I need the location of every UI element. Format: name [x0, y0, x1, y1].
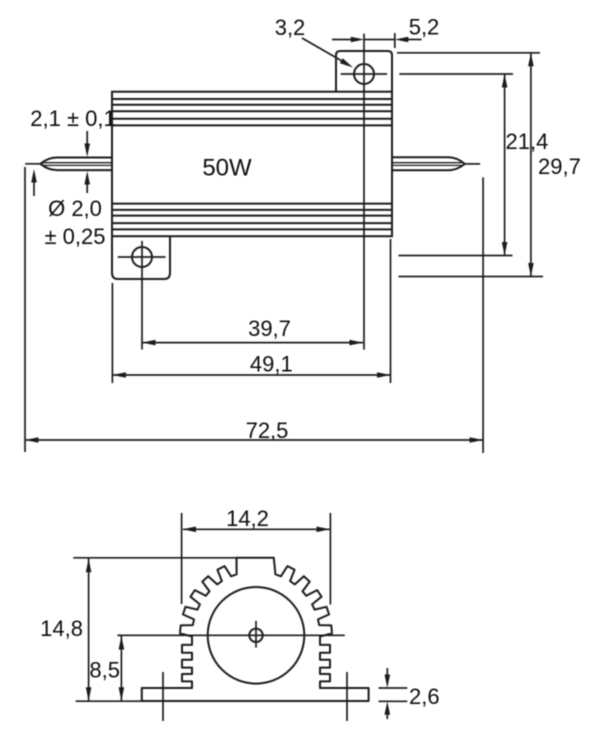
50W label: [202, 155, 252, 182]
label 39,7: [248, 316, 291, 341]
bottom mounting tab: [112, 236, 170, 279]
dimension 14,8: [86, 559, 92, 701]
dimension 5,2: [332, 33, 422, 48]
dimension 8,5: [119, 636, 125, 701]
left lead: [25, 158, 112, 171]
svg-text:49,1: 49,1: [250, 352, 293, 377]
dimension 72,5 extension lines: [25, 167, 483, 453]
label 49,1: [250, 352, 293, 377]
label Ø 2,0: [48, 196, 102, 221]
svg-text:50W: 50W: [202, 155, 252, 182]
svg-text:2,6: 2,6: [409, 684, 440, 709]
svg-text:3,2: 3,2: [275, 15, 306, 40]
top tab hole centerlines: [341, 34, 387, 350]
label 29,7: [538, 154, 581, 179]
label ± 0,25: [44, 224, 105, 249]
arrow down to lead top: [84, 131, 90, 157]
right lead: [392, 157, 480, 170]
label 72,5: [246, 418, 289, 443]
top heatsink fin lines: [112, 99, 392, 125]
dimension 8,5 extension line: [118, 634, 122, 636]
top tab hole: [354, 64, 374, 84]
label 21,4: [506, 129, 549, 154]
heatsink housing cross-section outline with fins and flange (front view): [142, 558, 369, 701]
arrow up to lead bottom: [84, 171, 90, 193]
bottom tab hole centerlines: [118, 241, 166, 350]
svg-text:39,7: 39,7: [248, 316, 291, 341]
right extension lines: [397, 53, 543, 277]
resistor body outline (side view): [112, 92, 392, 237]
svg-text:5,2: 5,2: [409, 15, 440, 40]
top mounting tab: [336, 51, 392, 92]
dimension 29,7: [528, 53, 534, 277]
bottom heatsink fin lines: [112, 204, 392, 230]
dimension 14,2: [183, 527, 331, 533]
svg-text:14,8: 14,8: [40, 616, 83, 641]
svg-text:29,7: 29,7: [538, 154, 581, 179]
svg-text:2,1 ± 0,1: 2,1 ± 0,1: [30, 106, 115, 131]
dimension 39,7: [142, 340, 363, 346]
dimension 2,6: [385, 668, 391, 719]
center hole vertical centerline: [255, 621, 257, 648]
dimension 14,8 extension lines: [73, 558, 236, 701]
dimension 49,1: [112, 372, 390, 378]
label 5,2: [409, 15, 440, 40]
svg-text:8,5: 8,5: [89, 658, 120, 683]
inner bore circle: [208, 587, 305, 684]
arrow up to lead tip: [31, 169, 37, 196]
dimension 21,4: [502, 74, 508, 256]
label 3,2: [275, 15, 306, 40]
leader arrow 3,2 to hole: [302, 38, 353, 68]
label 2,6: [409, 684, 440, 709]
dimension 14,2 extension lines: [182, 513, 331, 605]
svg-text:21,4: 21,4: [506, 129, 549, 154]
label 2,1 ± 0,1: [30, 106, 115, 131]
horizontal centerline front view: [118, 634, 345, 636]
mounting hole centerlines front view: [163, 672, 347, 721]
center hole: [249, 629, 262, 642]
svg-text:14,2: 14,2: [226, 506, 269, 531]
dimension 2,6 extension lines: [379, 688, 408, 701]
bottom tab hole: [132, 247, 152, 267]
dimension 49,1 extension lines: [112, 239, 390, 383]
svg-text:72,5: 72,5: [246, 418, 289, 443]
dimension 72,5: [25, 437, 483, 443]
label 14,8: [40, 616, 83, 641]
label 8,5: [89, 658, 120, 683]
label 14,2: [226, 506, 269, 531]
svg-text:± 0,25: ± 0,25: [44, 224, 105, 249]
svg-text:Ø 2,0: Ø 2,0: [48, 196, 102, 221]
